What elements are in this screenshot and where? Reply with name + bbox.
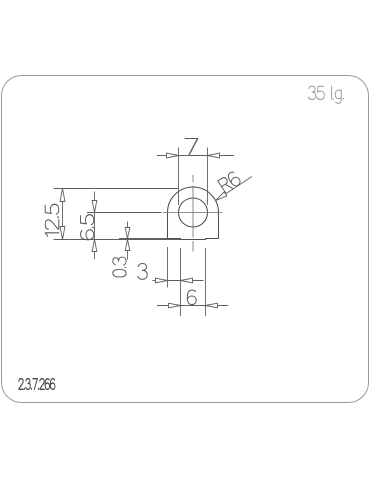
radius text R6	[218, 171, 242, 194]
dimension 3: extension lines	[168, 247, 181, 316]
dimension 0.3: dimension line, outside arrows	[125, 222, 130, 260]
dimension 3: dimension line, outside arrows	[153, 278, 204, 283]
part outline: D-shaped lug, R6 top, stepped bottom	[168, 187, 219, 239]
dimension text 12.5	[45, 204, 59, 236]
dimension 12.5: extension lines	[54, 189, 181, 240]
R6 leader line with arrowhead on arc	[216, 177, 252, 201]
dimension 7: dimension line with outside arrows	[157, 153, 234, 158]
part number 2.3.7.266	[19, 379, 55, 390]
vertical centerline	[192, 175, 194, 252]
dimension 0.3: extension line of upper bottom level	[119, 238, 168, 240]
dimension text 3	[138, 264, 147, 280]
dimension 6: extension line right step	[205, 248, 207, 316]
dimension text 0.3	[113, 257, 126, 277]
dimension text 6.5	[81, 215, 94, 240]
dimension 6: dimension line, outside arrows	[157, 303, 228, 308]
dimension text 7	[185, 139, 197, 155]
dimension 12.5: vertical dimension line with inside arrows	[60, 189, 65, 240]
dimension 7: extension lines from hole sides	[179, 148, 208, 206]
hole circle, diameter 7	[179, 198, 208, 227]
drawing frame (rounded border)	[2, 76, 369, 403]
dimension text 6	[187, 290, 196, 305]
length note 35 lg.	[308, 86, 343, 103]
dimension 6.5: dimension line, outside arrows	[92, 192, 97, 260]
horizontal centerline	[163, 212, 223, 214]
dimension 6.5: extension line from centerline	[87, 212, 162, 214]
